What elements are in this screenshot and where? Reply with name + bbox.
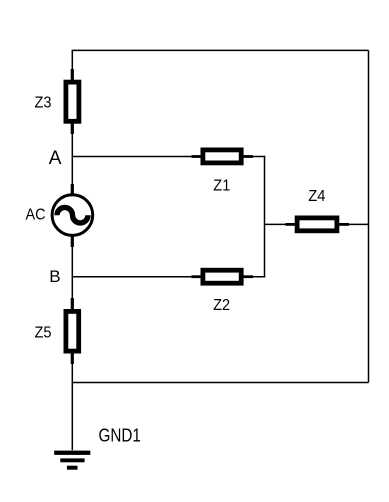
ac source AC xyxy=(52,184,93,247)
svg-text:GND1: GND1 xyxy=(99,426,141,446)
svg-text:AC: AC xyxy=(26,206,46,223)
wire mid horizontal right of Z4 xyxy=(339,223,368,225)
wire left vertical between AC and Z5 xyxy=(71,236,73,310)
resistor Z2 xyxy=(192,270,254,283)
svg-text:B: B xyxy=(49,267,60,286)
wire left vertical between Z3 and AC xyxy=(71,124,73,195)
resistor Z1 xyxy=(192,150,254,163)
svg-text:Z3: Z3 xyxy=(35,95,52,112)
wire left vertical top segment xyxy=(71,50,73,80)
svg-text:Z1: Z1 xyxy=(213,178,230,195)
wire mid horizontal left of Z4 xyxy=(265,223,295,225)
ground xyxy=(54,451,90,470)
resistor Z3 xyxy=(66,69,79,134)
resistor Z5 xyxy=(66,298,79,364)
svg-text:A: A xyxy=(49,148,62,169)
wire right vertical xyxy=(368,50,370,382)
wire node B horizontal left of Z2 xyxy=(72,276,200,278)
wire node A horizontal right of Z1 xyxy=(244,156,266,158)
svg-text:Z4: Z4 xyxy=(308,188,326,205)
wire node B horizontal right of Z2 xyxy=(244,276,266,278)
svg-text:Z5: Z5 xyxy=(35,325,52,342)
svg-text:Z2: Z2 xyxy=(213,297,230,314)
wire node A horizontal left of Z1 xyxy=(72,156,200,158)
wire junction vertical xyxy=(264,156,266,278)
wire top horizontal xyxy=(72,49,368,51)
resistor Z4 xyxy=(286,218,350,231)
wire left vertical between Z5 and ground xyxy=(71,354,73,451)
wire bottom horizontal xyxy=(72,382,368,384)
